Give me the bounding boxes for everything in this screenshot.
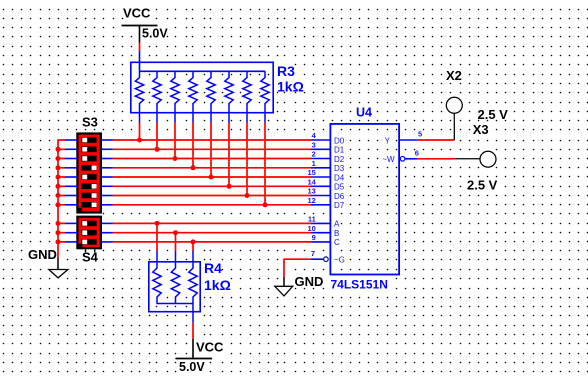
wire D7: S3 to U4 bbox=[113, 204, 312, 206]
svg-text:X2: X2 bbox=[446, 68, 462, 83]
wire D6: S3 to U4 bbox=[113, 195, 312, 197]
svg-text:B: B bbox=[334, 229, 339, 238]
svg-text:R3: R3 bbox=[277, 63, 295, 79]
wire D2: S3 to U4 bbox=[113, 158, 312, 160]
svg-text:X3: X3 bbox=[473, 122, 489, 137]
svg-text:~G: ~G bbox=[334, 256, 345, 265]
wire D4: S3 to U4 bbox=[113, 176, 312, 178]
DIP switch S3 (8-position) bbox=[77, 134, 101, 213]
svg-text:Y: Y bbox=[385, 136, 391, 145]
wire D3: S3 to U4 bbox=[113, 167, 312, 169]
wire R3 pin 5 down to D4 net bbox=[210, 123, 212, 178]
junction R3/D1 bbox=[155, 147, 160, 152]
svg-text:GND: GND bbox=[295, 274, 324, 289]
svg-text:S4: S4 bbox=[82, 250, 99, 265]
wire ~W to probe X3 bbox=[418, 158, 455, 160]
U4 pin 7 inversion bubble bbox=[324, 257, 329, 262]
S3/S4 right pins bbox=[102, 140, 113, 242]
svg-text:6: 6 bbox=[415, 149, 419, 158]
resistor pack R4 (3x parallel resistors) bbox=[149, 251, 200, 323]
svg-text:2: 2 bbox=[312, 150, 316, 159]
ground bus wire (left of S3) bbox=[58, 140, 65, 258]
junction C/R4 bbox=[191, 239, 196, 244]
probe X3 bbox=[480, 151, 496, 167]
probe X3 lead bbox=[455, 158, 480, 160]
svg-text:D6: D6 bbox=[334, 192, 345, 201]
junction dots on ground bus bbox=[56, 147, 61, 245]
wire VCC to R3 pin 1 bbox=[139, 43, 141, 52]
wire R3 pin 8 down to D7 net bbox=[264, 123, 266, 205]
svg-text:7: 7 bbox=[311, 249, 315, 258]
multiplexer U4 74LS151N body bbox=[330, 124, 399, 275]
wire R3 pin 6 down to D5 net bbox=[228, 123, 230, 187]
U4 left pins (D0-D7, A, B, C) bbox=[311, 140, 330, 242]
U4 pin 6 (~W) stub bbox=[405, 158, 418, 160]
junction R3/D6 bbox=[245, 193, 250, 198]
junction R3/D5 bbox=[227, 184, 232, 189]
ground symbol (right) bbox=[275, 277, 293, 296]
svg-text:C: C bbox=[334, 238, 340, 247]
junction R3/D4 bbox=[209, 175, 214, 180]
svg-text:15: 15 bbox=[307, 168, 315, 177]
probe X2 lead bbox=[453, 113, 455, 140]
svg-text:3: 3 bbox=[312, 141, 316, 150]
junction R3/D7 bbox=[263, 202, 268, 207]
probe X2 bbox=[446, 97, 462, 113]
svg-text:1: 1 bbox=[312, 159, 316, 168]
svg-text:D3: D3 bbox=[334, 164, 345, 173]
wire B down to R4 pin 2 bbox=[175, 233, 177, 251]
wire R3 pin 2 down to D1 net bbox=[156, 123, 158, 150]
junction R3/D3 bbox=[191, 165, 196, 170]
svg-text:S3: S3 bbox=[82, 115, 98, 130]
svg-text:D2: D2 bbox=[334, 155, 345, 164]
junction A/R4 bbox=[155, 221, 160, 226]
svg-text:12: 12 bbox=[307, 196, 315, 205]
junction R3/D0 bbox=[137, 138, 142, 143]
wire C down to R4 pin 3 bbox=[192, 242, 194, 251]
svg-text:14: 14 bbox=[307, 178, 316, 187]
svg-text:~W: ~W bbox=[382, 155, 395, 164]
power symbol VCC (top) bbox=[122, 25, 158, 43]
wire R3 pin 7 down to D6 net bbox=[246, 123, 248, 196]
wire R3 pin 3 down to D2 net bbox=[174, 123, 176, 159]
resistor pack R3 (8x parallel resistors) bbox=[131, 51, 273, 123]
S3/S4 left pins bbox=[65, 140, 77, 242]
svg-text:2.5 V: 2.5 V bbox=[478, 107, 509, 122]
svg-text:74LS151N: 74LS151N bbox=[331, 277, 388, 291]
wire D0: S3 to U4 bbox=[113, 139, 312, 141]
wire A: S4 to U4 bbox=[113, 222, 312, 224]
svg-text:10: 10 bbox=[307, 224, 315, 233]
wire Y to probe X2 bbox=[418, 139, 455, 141]
svg-text:5.0V: 5.0V bbox=[142, 27, 168, 41]
svg-text:D0: D0 bbox=[334, 136, 345, 145]
svg-text:D7: D7 bbox=[334, 201, 345, 210]
svg-text:GND: GND bbox=[28, 247, 57, 262]
ground symbol (left) bbox=[49, 258, 68, 278]
wire R3 pin 4 down to D3 net bbox=[192, 123, 194, 168]
U4 pin 5 (Y) stub bbox=[400, 139, 418, 141]
svg-text:5: 5 bbox=[418, 130, 422, 139]
svg-text:A: A bbox=[334, 220, 340, 229]
svg-text:1kΩ: 1kΩ bbox=[277, 78, 304, 94]
U4 pin 6 inversion bubble bbox=[400, 157, 405, 162]
svg-text:5.0V: 5.0V bbox=[179, 360, 205, 374]
svg-text:D5: D5 bbox=[334, 183, 345, 192]
wire R4 to VCC (bottom) bbox=[192, 323, 194, 339]
svg-text:11: 11 bbox=[308, 215, 316, 224]
wire D1: S3 to U4 bbox=[113, 148, 312, 150]
svg-text:R4: R4 bbox=[204, 260, 222, 276]
ground bus connector stubs bbox=[58, 149, 65, 242]
DIP switch S4 (3-position) bbox=[77, 217, 101, 253]
svg-text:1kΩ: 1kΩ bbox=[204, 277, 231, 293]
junction R3/D2 bbox=[173, 156, 178, 161]
svg-text:2.5 V: 2.5 V bbox=[467, 178, 498, 193]
wire A down to R4 pin 1 bbox=[156, 223, 158, 251]
svg-text:D1: D1 bbox=[334, 146, 345, 155]
svg-text:13: 13 bbox=[307, 187, 315, 196]
junction B/R4 bbox=[173, 230, 178, 235]
wire ~G to ground bbox=[284, 259, 311, 277]
svg-text:D4: D4 bbox=[334, 173, 345, 182]
svg-text:VCC: VCC bbox=[196, 340, 224, 355]
svg-text:9: 9 bbox=[312, 233, 316, 242]
svg-text:U4: U4 bbox=[356, 106, 372, 120]
power symbol VCC (bottom) bbox=[175, 339, 212, 359]
wire B: S4 to U4 bbox=[113, 232, 312, 234]
wire D5: S3 to U4 bbox=[113, 185, 312, 187]
wire C: S4 to U4 bbox=[113, 241, 312, 243]
svg-text:VCC: VCC bbox=[123, 6, 151, 21]
wire R3 pin 1 down to D0 net bbox=[139, 123, 141, 141]
U4 pin 7 (~G) stub bbox=[311, 258, 323, 260]
